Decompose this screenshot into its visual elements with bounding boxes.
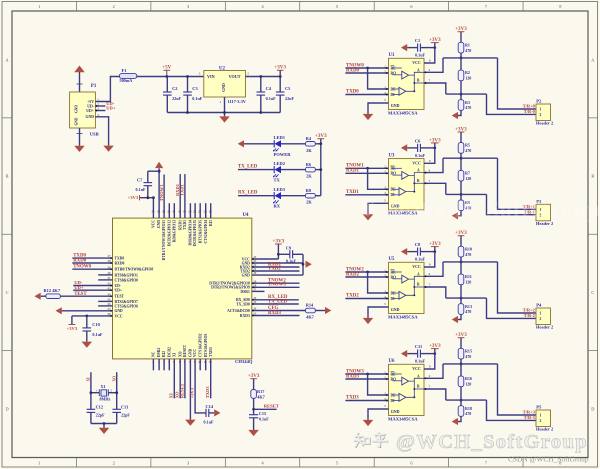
svg-text:R6: R6 bbox=[306, 162, 312, 167]
svg-text:C13: C13 bbox=[121, 404, 128, 409]
svg-text:500mA: 500mA bbox=[120, 78, 133, 83]
svg-text:0.1uF: 0.1uF bbox=[415, 257, 426, 262]
svg-text:RE: RE bbox=[391, 270, 397, 274]
svg-text:DE: DE bbox=[391, 87, 397, 91]
svg-text:RXD0: RXD0 bbox=[115, 261, 125, 265]
svg-text:VCC: VCC bbox=[152, 220, 156, 228]
svg-text:470: 470 bbox=[465, 252, 471, 257]
svg-text:MAX3485CSA: MAX3485CSA bbox=[388, 111, 418, 116]
svg-text:RX: RX bbox=[274, 204, 281, 209]
svg-text:R1: R1 bbox=[465, 42, 470, 47]
svg-text:TXD3: TXD3 bbox=[209, 347, 213, 357]
svg-text:VIN: VIN bbox=[207, 74, 215, 79]
svg-text:LED1: LED1 bbox=[274, 135, 286, 140]
svg-text:RXD0: RXD0 bbox=[73, 259, 87, 264]
svg-text:C6: C6 bbox=[415, 138, 421, 143]
svg-text:C15: C15 bbox=[259, 411, 266, 416]
svg-text:C9: C9 bbox=[286, 245, 292, 250]
svg-text:U6: U6 bbox=[389, 359, 396, 364]
svg-text:+3V3: +3V3 bbox=[429, 37, 441, 43]
svg-text:0.1uF: 0.1uF bbox=[415, 359, 426, 364]
svg-text:DI: DI bbox=[391, 93, 396, 97]
svg-text:8MHz: 8MHz bbox=[100, 397, 111, 402]
svg-text:DCD1&GPIO15: DCD1&GPIO15 bbox=[193, 220, 197, 246]
svg-text:DE: DE bbox=[391, 188, 397, 192]
svg-text:+3V3: +3V3 bbox=[190, 387, 195, 398]
svg-text:UD+: UD+ bbox=[86, 109, 94, 113]
svg-text:2: 2 bbox=[540, 317, 542, 321]
svg-text:+3V3: +3V3 bbox=[315, 133, 327, 139]
svg-text:RXD3: RXD3 bbox=[268, 311, 282, 316]
svg-text:3: 3 bbox=[187, 461, 189, 466]
svg-text:4K7: 4K7 bbox=[257, 395, 265, 400]
svg-text:470: 470 bbox=[465, 148, 471, 153]
svg-text:U4: U4 bbox=[243, 213, 250, 218]
svg-text:+5V: +5V bbox=[162, 65, 171, 71]
svg-text:XI: XI bbox=[87, 377, 91, 382]
svg-text:RI1: RI1 bbox=[209, 220, 213, 226]
svg-text:0.1uF: 0.1uF bbox=[266, 96, 277, 101]
svg-text:DSR2: DSR2 bbox=[157, 348, 161, 357]
svg-text:C14: C14 bbox=[206, 404, 214, 409]
svg-text:R11: R11 bbox=[465, 274, 472, 279]
svg-text:RESET: RESET bbox=[183, 344, 187, 357]
svg-text:C11: C11 bbox=[415, 344, 422, 349]
svg-text:2K: 2K bbox=[306, 148, 312, 153]
svg-text:XO: XO bbox=[178, 351, 182, 357]
svg-text:5: 5 bbox=[336, 4, 338, 9]
svg-text:TXD2: TXD2 bbox=[268, 266, 281, 271]
svg-text:RESET: RESET bbox=[264, 405, 280, 410]
svg-text:T/R+2: T/R+2 bbox=[523, 308, 536, 313]
svg-text:UD+: UD+ bbox=[106, 105, 116, 110]
svg-text:DCD2: DCD2 bbox=[167, 347, 171, 357]
svg-text:+3V3: +3V3 bbox=[455, 26, 467, 32]
svg-text:RTS1&GPIO3: RTS1&GPIO3 bbox=[204, 334, 208, 357]
svg-text:F1: F1 bbox=[122, 69, 128, 74]
svg-text:+3V3: +3V3 bbox=[248, 373, 260, 379]
svg-text:MAX3485CSA: MAX3485CSA bbox=[388, 315, 418, 320]
svg-text:UD-: UD- bbox=[87, 104, 95, 108]
svg-text:0.1uF: 0.1uF bbox=[259, 417, 269, 422]
svg-text:VCC: VCC bbox=[412, 264, 421, 269]
svg-text:A: A bbox=[417, 169, 420, 173]
svg-text:1117-3.3V: 1117-3.3V bbox=[228, 99, 247, 104]
svg-text:120: 120 bbox=[465, 382, 471, 387]
svg-text:TX_LED: TX_LED bbox=[238, 164, 258, 169]
svg-text:LED2: LED2 bbox=[274, 161, 286, 166]
svg-text:RTS3&GPIO7: RTS3&GPIO7 bbox=[115, 300, 138, 304]
svg-text:XI: XI bbox=[169, 393, 174, 398]
svg-text:@WCH_SoftGroup: @WCH_SoftGroup bbox=[388, 197, 600, 223]
svg-text:GND: GND bbox=[391, 307, 400, 312]
svg-text:RI0&GPIO13: RI0&GPIO13 bbox=[172, 220, 176, 242]
svg-text:DSR1: DSR1 bbox=[241, 290, 250, 294]
svg-text:2: 2 bbox=[540, 419, 542, 423]
svg-text:A: A bbox=[417, 272, 420, 276]
svg-text:0.1uF: 0.1uF bbox=[415, 153, 426, 158]
svg-text:TNOW0: TNOW0 bbox=[73, 265, 91, 270]
svg-text:TNOW1: TNOW1 bbox=[159, 184, 164, 201]
svg-text:GND: GND bbox=[391, 409, 400, 414]
svg-text:DTR0/TNOW0&GPIO8: DTR0/TNOW0&GPIO8 bbox=[115, 268, 154, 272]
svg-text:B: B bbox=[6, 174, 9, 179]
svg-text:A: A bbox=[417, 374, 420, 378]
svg-text:470: 470 bbox=[465, 411, 471, 416]
svg-text:0.1uF: 0.1uF bbox=[92, 332, 103, 337]
svg-text:USB: USB bbox=[90, 133, 99, 138]
svg-text:C2: C2 bbox=[172, 86, 178, 91]
svg-text:DTR1/TNOW1&GPIO11: DTR1/TNOW1&GPIO11 bbox=[162, 220, 166, 260]
svg-text:0.1uF: 0.1uF bbox=[204, 420, 215, 425]
svg-text:C5: C5 bbox=[285, 86, 291, 91]
svg-text:TXD1: TXD1 bbox=[183, 220, 187, 230]
svg-text:22uF: 22uF bbox=[172, 96, 181, 101]
svg-text:+3V3: +3V3 bbox=[273, 238, 285, 244]
svg-text:T/R-3: T/R-3 bbox=[524, 415, 536, 420]
svg-text:VCC: VCC bbox=[412, 161, 421, 166]
svg-text:RO: RO bbox=[391, 377, 397, 381]
svg-text:T/R+0: T/R+0 bbox=[523, 104, 536, 109]
svg-text:T/R-0: T/R-0 bbox=[524, 109, 536, 114]
svg-text:2: 2 bbox=[540, 113, 542, 117]
svg-text:D: D bbox=[591, 406, 594, 411]
svg-text:VOUT: VOUT bbox=[229, 74, 241, 79]
svg-text:UD+: UD+ bbox=[115, 289, 122, 293]
svg-text:RX_LED: RX_LED bbox=[238, 191, 258, 196]
svg-text:Header 2: Header 2 bbox=[536, 325, 554, 330]
svg-text:RI2: RI2 bbox=[162, 351, 166, 357]
svg-text:120: 120 bbox=[465, 76, 471, 81]
svg-text:C12: C12 bbox=[96, 404, 103, 409]
svg-text:470: 470 bbox=[465, 48, 471, 53]
svg-text:0.1uF: 0.1uF bbox=[192, 96, 203, 101]
svg-text:CTS3&GPIO6: CTS3&GPIO6 bbox=[115, 304, 139, 308]
svg-text:MAX3485CSA: MAX3485CSA bbox=[388, 417, 418, 422]
svg-text:VCC: VCC bbox=[193, 349, 197, 357]
svg-text:RO: RO bbox=[391, 71, 397, 75]
svg-text:DI: DI bbox=[391, 297, 396, 301]
svg-text:B: B bbox=[591, 174, 594, 179]
svg-text:+3V3: +3V3 bbox=[455, 126, 467, 132]
svg-text:CTS2&GPIO4: CTS2&GPIO4 bbox=[204, 220, 208, 244]
svg-text:R4: R4 bbox=[306, 136, 312, 141]
svg-text:+3V3: +3V3 bbox=[429, 343, 441, 349]
svg-text:+3V3: +3V3 bbox=[455, 332, 467, 338]
svg-text:UD+: UD+ bbox=[74, 286, 84, 291]
svg-text:GND: GND bbox=[189, 348, 193, 357]
svg-text:POWER: POWER bbox=[274, 152, 292, 157]
svg-text:+3V3: +3V3 bbox=[274, 65, 286, 71]
svg-text:RO: RO bbox=[391, 275, 397, 279]
svg-text:+3V3: +3V3 bbox=[67, 327, 78, 332]
svg-text:GND: GND bbox=[391, 103, 400, 108]
svg-text:DE: DE bbox=[391, 393, 397, 397]
svg-text:3: 3 bbox=[187, 4, 189, 9]
svg-text:TNOW3: TNOW3 bbox=[268, 283, 286, 288]
svg-text:Header 2: Header 2 bbox=[536, 121, 554, 126]
svg-text:470: 470 bbox=[465, 105, 471, 110]
svg-text:+3V3: +3V3 bbox=[429, 241, 441, 247]
svg-text:GND: GND bbox=[115, 309, 124, 313]
svg-text:1: 1 bbox=[38, 4, 40, 9]
svg-text:CSDN @WCH_SoftGroup: CSDN @WCH_SoftGroup bbox=[508, 455, 589, 464]
svg-text:C1: C1 bbox=[415, 38, 420, 43]
svg-text:TEST: TEST bbox=[74, 292, 87, 297]
svg-text:DI: DI bbox=[391, 399, 396, 403]
svg-text:XI: XI bbox=[172, 352, 176, 357]
svg-text:TX: TX bbox=[274, 178, 281, 183]
svg-text:0.1uF: 0.1uF bbox=[286, 259, 297, 264]
svg-text:TXD0: TXD0 bbox=[115, 257, 125, 261]
svg-text:RESET: RESET bbox=[179, 383, 184, 398]
svg-text:C4: C4 bbox=[266, 86, 272, 91]
svg-text:CH344Q: CH344Q bbox=[235, 360, 253, 365]
svg-text:D: D bbox=[5, 406, 8, 411]
svg-text:22pF: 22pF bbox=[121, 412, 130, 417]
svg-text:RXD3: RXD3 bbox=[240, 314, 250, 318]
svg-text:DCD2&GPIO12: DCD2&GPIO12 bbox=[167, 220, 171, 246]
svg-text:R2: R2 bbox=[465, 70, 470, 75]
svg-text:GND: GND bbox=[221, 83, 226, 92]
svg-text:C3: C3 bbox=[192, 86, 198, 91]
svg-text:8: 8 bbox=[559, 4, 561, 9]
svg-text:R5: R5 bbox=[465, 143, 470, 148]
svg-text:22pF: 22pF bbox=[96, 412, 105, 417]
svg-text:120: 120 bbox=[465, 280, 471, 285]
svg-text:R7: R7 bbox=[465, 171, 470, 176]
svg-text:22uF: 22uF bbox=[285, 96, 294, 101]
svg-text:CTS0&GPIO0: CTS0&GPIO0 bbox=[115, 278, 139, 282]
svg-text:XO: XO bbox=[112, 376, 116, 382]
svg-text:T/R+3: T/R+3 bbox=[523, 410, 536, 415]
svg-text:0.1uF: 0.1uF bbox=[136, 187, 147, 192]
svg-text:R14: R14 bbox=[306, 303, 314, 308]
svg-text:DE: DE bbox=[391, 291, 397, 295]
svg-text:NC: NC bbox=[152, 351, 156, 357]
svg-text:GND: GND bbox=[242, 274, 251, 278]
svg-text:GND: GND bbox=[157, 220, 161, 229]
svg-text:RE: RE bbox=[391, 372, 397, 376]
svg-text:RXD1: RXD1 bbox=[178, 220, 182, 230]
svg-text:@WCH_SoftGroup: @WCH_SoftGroup bbox=[396, 431, 588, 453]
svg-text:GND: GND bbox=[85, 115, 94, 119]
svg-text:U5: U5 bbox=[389, 257, 396, 262]
svg-text:+3V3: +3V3 bbox=[128, 196, 139, 201]
svg-text:C7: C7 bbox=[137, 177, 143, 182]
svg-text:2K: 2K bbox=[306, 200, 312, 205]
svg-text:120: 120 bbox=[465, 176, 471, 181]
svg-text:1: 1 bbox=[540, 108, 542, 112]
svg-text:TXD3: TXD3 bbox=[205, 386, 210, 399]
svg-text:C8: C8 bbox=[415, 242, 421, 247]
svg-text:4K7: 4K7 bbox=[306, 315, 314, 320]
svg-text:GND: GND bbox=[75, 105, 79, 113]
svg-text:T/R-2: T/R-2 bbox=[524, 313, 536, 318]
svg-text:U3: U3 bbox=[389, 154, 396, 159]
svg-text:P1: P1 bbox=[91, 84, 97, 89]
svg-text:VCC: VCC bbox=[412, 366, 421, 371]
svg-text:+5V: +5V bbox=[87, 100, 94, 104]
svg-text:0.1uF: 0.1uF bbox=[415, 53, 426, 58]
svg-text:TXD1: TXD1 bbox=[180, 183, 185, 196]
svg-text:TX_LED: TX_LED bbox=[268, 299, 288, 304]
svg-text:5: 5 bbox=[336, 461, 338, 466]
svg-text:470: 470 bbox=[465, 309, 471, 314]
svg-text:C: C bbox=[6, 290, 9, 295]
svg-text:RE: RE bbox=[391, 66, 397, 70]
svg-text:VCC: VCC bbox=[115, 314, 123, 318]
svg-text:470: 470 bbox=[465, 354, 471, 359]
svg-text:RTS0&GPIO1: RTS0&GPIO1 bbox=[115, 273, 138, 277]
svg-text:2: 2 bbox=[113, 4, 115, 9]
svg-text:R18: R18 bbox=[465, 406, 472, 411]
svg-text:C: C bbox=[591, 290, 594, 295]
svg-text:R12 4K7: R12 4K7 bbox=[44, 288, 61, 293]
svg-text:ACT#&DCD0: ACT#&DCD0 bbox=[227, 309, 250, 313]
svg-text:U1: U1 bbox=[389, 53, 396, 58]
svg-text:LED3: LED3 bbox=[274, 187, 286, 192]
svg-text:TX_SD0: TX_SD0 bbox=[236, 302, 250, 306]
svg-text:1: 1 bbox=[540, 312, 542, 316]
svg-text:R8: R8 bbox=[306, 188, 311, 193]
svg-text:2K: 2K bbox=[306, 174, 312, 179]
svg-text:CTS1&GPIO2: CTS1&GPIO2 bbox=[198, 333, 202, 357]
svg-text:R10: R10 bbox=[465, 246, 472, 251]
svg-text:X1: X1 bbox=[101, 384, 106, 389]
svg-text:RTS2&GPIO5: RTS2&GPIO5 bbox=[198, 220, 202, 243]
svg-text:DSR0&GPIO14: DSR0&GPIO14 bbox=[189, 220, 193, 246]
svg-text:2: 2 bbox=[113, 461, 115, 466]
svg-text:A: A bbox=[417, 68, 420, 72]
svg-text:TEST: TEST bbox=[115, 295, 125, 299]
svg-text:R16: R16 bbox=[465, 376, 472, 381]
svg-text:RO: RO bbox=[391, 172, 397, 176]
svg-text:C10: C10 bbox=[92, 322, 100, 327]
svg-text:GND: GND bbox=[75, 117, 79, 125]
svg-text:R13: R13 bbox=[465, 304, 472, 309]
svg-text:UD-: UD- bbox=[115, 284, 122, 288]
svg-text:VCC: VCC bbox=[412, 60, 421, 65]
svg-text:1: 1 bbox=[540, 414, 542, 418]
svg-text:R15: R15 bbox=[465, 348, 472, 353]
svg-text:RE: RE bbox=[391, 167, 397, 171]
svg-text:R17: R17 bbox=[257, 389, 265, 394]
svg-text:R3: R3 bbox=[465, 100, 470, 105]
svg-text:+3V3: +3V3 bbox=[455, 230, 467, 236]
svg-text:+3V3: +3V3 bbox=[429, 137, 441, 143]
svg-text:1: 1 bbox=[38, 461, 40, 466]
